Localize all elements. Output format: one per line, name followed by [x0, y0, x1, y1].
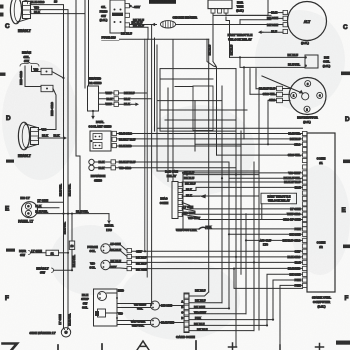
svg-text:PRES: PRES	[100, 9, 108, 13]
svg-text:#1: #1	[319, 161, 323, 165]
svg-text:SW: SW	[20, 253, 25, 257]
svg-text:BLK-YEL: BLK-YEL	[35, 209, 48, 213]
svg-text:PANEL LT: PANEL LT	[18, 219, 33, 223]
svg-text:E: E	[342, 207, 347, 214]
svg-text:PNK: PNK	[295, 227, 301, 231]
svg-text:BLK-RED: BLK-RED	[288, 266, 301, 270]
svg-text:BLK: BLK	[42, 134, 49, 138]
svg-text:SOL: SOL	[90, 249, 96, 253]
svg-text:RED-ORG: RED-ORG	[19, 70, 23, 84]
svg-text:BLK-YEL: BLK-YEL	[68, 313, 72, 325]
svg-text:BLK-YEL: BLK-YEL	[288, 132, 300, 136]
svg-text:DK BLU: DK BLU	[195, 288, 206, 292]
svg-text:BLK: BLK	[295, 185, 301, 189]
svg-text:RELAY: RELAY	[167, 174, 177, 178]
svg-text:(2.2L): (2.2L)	[100, 18, 108, 22]
svg-text:BLU: BLU	[271, 30, 277, 34]
svg-text:HEADLT: HEADLT	[18, 154, 31, 158]
svg-text:DK BLU: DK BLU	[290, 137, 301, 141]
svg-text:SIDE MARKER LT: SIDE MARKER LT	[30, 331, 56, 335]
svg-text:LT GRN: LT GRN	[290, 207, 300, 211]
svg-text:RED-ORG: RED-ORG	[50, 101, 54, 115]
svg-text:SW: SW	[101, 14, 106, 18]
svg-text:DK BLU: DK BLU	[184, 176, 194, 180]
svg-text:(2.2L): (2.2L)	[317, 305, 325, 309]
svg-text:LTS: LTS	[263, 243, 268, 247]
svg-text:DK BLU: DK BLU	[121, 32, 132, 36]
svg-text:C: C	[5, 23, 10, 30]
svg-text:F: F	[5, 295, 9, 302]
svg-text:E: E	[5, 206, 10, 213]
svg-text:SW: SW	[24, 59, 29, 63]
svg-text:LT GRN: LT GRN	[31, 249, 42, 253]
svg-text:UNLOCK RELAY: UNLOCK RELAY	[268, 199, 290, 203]
svg-text:BLK: BLK	[295, 260, 301, 264]
svg-text:COMPUTER: COMPUTER	[313, 300, 331, 304]
svg-text:BLK-YEL: BLK-YEL	[288, 62, 300, 66]
svg-text:ORG-YEL: ORG-YEL	[288, 153, 301, 157]
svg-text:(2.2L): (2.2L)	[323, 64, 331, 68]
svg-text:HEADLT: HEADLT	[18, 29, 31, 33]
svg-text:DISTRIBUTOR: DISTRIBUTOR	[297, 116, 318, 120]
svg-text:BLK: BLK	[35, 204, 42, 208]
svg-text:LT GRN: LT GRN	[58, 314, 62, 324]
svg-text:BLK-YEL: BLK-YEL	[63, 222, 67, 234]
svg-text:CONN: CONN	[317, 157, 326, 161]
svg-text:VIO: VIO	[34, 68, 40, 72]
svg-text:CARB CONN: CARB CONN	[176, 335, 196, 339]
svg-text:(2.2L): (2.2L)	[303, 120, 311, 124]
svg-text:BLK-ORG: BLK-ORG	[31, 0, 46, 4]
svg-text:VIO: VIO	[118, 311, 124, 315]
svg-text:BLK: BLK	[186, 193, 192, 197]
svg-text:D: D	[6, 115, 11, 122]
svg-text:SPARK CTRL: SPARK CTRL	[312, 296, 331, 300]
svg-text:BLK-ORG: BLK-ORG	[287, 255, 300, 259]
svg-text:13: 13	[54, 0, 58, 4]
svg-text:ALT: ALT	[304, 20, 311, 24]
svg-text:LT GRN: LT GRN	[38, 198, 49, 202]
svg-text:COOLANT SENS: COOLANT SENS	[89, 124, 112, 128]
svg-text:LTS: LTS	[106, 228, 112, 232]
svg-text:FUSE #13: FUSE #13	[102, 36, 117, 40]
svg-text:CONN: CONN	[160, 201, 169, 205]
svg-text:DUAL: DUAL	[96, 120, 104, 124]
svg-text:DK BLU: DK BLU	[230, 45, 234, 56]
svg-text:DK BLU: DK BLU	[288, 53, 299, 57]
svg-text:GRY: GRY	[134, 5, 140, 9]
svg-text:BLK-YEL: BLK-YEL	[68, 184, 72, 196]
svg-text:RED: RED	[118, 288, 124, 292]
svg-text:ORG: ORG	[269, 98, 275, 102]
svg-text:HEATED: HEATED	[89, 77, 102, 81]
svg-text:SW: SW	[40, 271, 45, 275]
svg-text:D: D	[345, 116, 350, 123]
svg-text:INS LT: INS LT	[20, 196, 29, 200]
svg-text:ORG: ORG	[294, 142, 300, 146]
svg-text:DK BLU: DK BLU	[207, 45, 211, 56]
svg-text:DK BLU: DK BLU	[132, 20, 143, 24]
svg-text:SOL: SOL	[90, 266, 96, 270]
svg-text:DISTANCE: DISTANCE	[91, 174, 106, 178]
svg-text:21: 21	[51, 251, 55, 255]
svg-text:DK GRN: DK GRN	[136, 267, 147, 271]
svg-text:DIAG: DIAG	[160, 197, 168, 201]
svg-text:(2.2L): (2.2L)	[236, 9, 244, 13]
svg-text:DK BLU: DK BLU	[195, 298, 206, 302]
svg-text:BLK-YEL: BLK-YEL	[72, 255, 76, 267]
svg-text:CHOKE HEATER: CHOKE HEATER	[173, 16, 198, 20]
svg-text:PART THROTTLE: PART THROTTLE	[267, 194, 290, 198]
svg-text:CONN: CONN	[317, 241, 326, 245]
svg-text:#2: #2	[319, 245, 323, 249]
svg-text:C: C	[343, 24, 348, 31]
svg-text:BLK-LT BLU: BLK-LT BLU	[284, 180, 300, 184]
svg-text:SENS: SENS	[94, 178, 102, 182]
svg-text:UNLOCK RELAY: UNLOCK RELAY	[228, 38, 252, 42]
svg-text:16: 16	[71, 244, 74, 248]
svg-text:BLK-YEL: BLK-YEL	[76, 210, 89, 214]
svg-text:OIL: OIL	[101, 5, 106, 9]
svg-text:(2.2L): (2.2L)	[301, 41, 309, 45]
svg-text:O2 SENS: O2 SENS	[88, 81, 101, 85]
svg-text:SOL: SOL	[82, 306, 88, 310]
svg-text:GRY: GRY	[295, 249, 301, 253]
svg-text:WHT-ORG: WHT-ORG	[287, 212, 301, 216]
svg-text:BLK-YEL: BLK-YEL	[58, 184, 62, 196]
svg-text:F: F	[345, 295, 349, 302]
svg-text:BLK: BLK	[271, 11, 277, 15]
svg-text:ORG-LT GRN: ORG-LT GRN	[283, 218, 301, 222]
svg-text:BLK: BLK	[54, 134, 61, 138]
svg-text:PART THROTTLE: PART THROTTLE	[228, 33, 253, 37]
